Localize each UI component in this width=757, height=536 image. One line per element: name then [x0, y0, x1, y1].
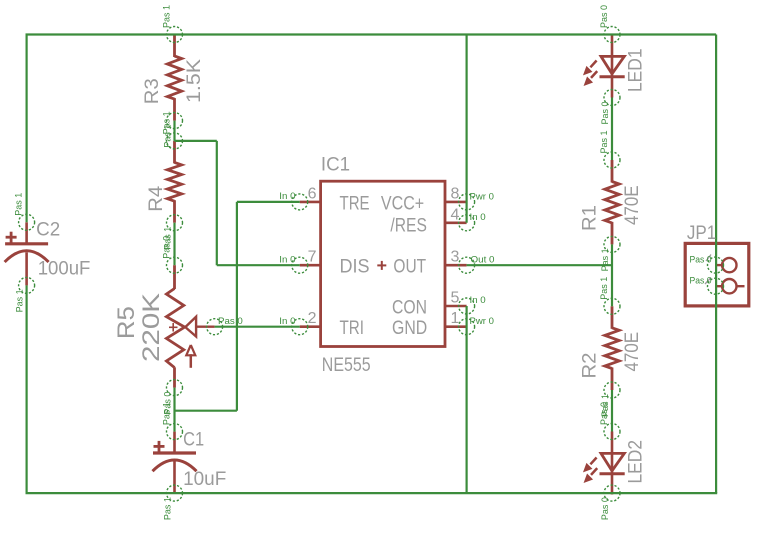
svg-text:Out 0: Out 0: [471, 255, 495, 266]
svg-text:Pas 1: Pas 1: [599, 277, 610, 300]
svg-text:Pas 1: Pas 1: [15, 289, 26, 312]
svg-text:Pas 0: Pas 0: [599, 5, 610, 28]
svg-text:In 0: In 0: [470, 212, 486, 223]
svg-text:R3: R3: [142, 78, 163, 104]
svg-text:TRE: TRE: [340, 194, 370, 215]
svg-text:R4: R4: [146, 185, 167, 211]
svg-text:Pas 1: Pas 1: [163, 497, 174, 520]
svg-text:JP1: JP1: [687, 223, 716, 244]
svg-text:7: 7: [308, 249, 317, 266]
svg-text:NE555: NE555: [322, 355, 371, 376]
svg-text:470E: 470E: [622, 332, 643, 372]
svg-text:Pas 0: Pas 0: [690, 255, 712, 266]
svg-text:Pas 1: Pas 1: [14, 193, 25, 216]
svg-text:Pas 0: Pas 0: [600, 497, 611, 520]
svg-text:6: 6: [308, 185, 317, 202]
svg-text:LED1: LED1: [626, 49, 647, 93]
svg-text:C2: C2: [36, 220, 60, 241]
svg-text:In 0: In 0: [279, 191, 295, 202]
svg-text:100uF: 100uF: [38, 259, 91, 280]
svg-text:10uF: 10uF: [183, 469, 226, 490]
svg-text:R5: R5: [113, 306, 140, 339]
svg-text:OUT: OUT: [393, 257, 426, 278]
svg-text:Pas 0: Pas 0: [162, 236, 173, 259]
svg-text:R1: R1: [580, 205, 601, 231]
svg-text:Pas 1: Pas 1: [162, 5, 173, 28]
svg-text:Pas 0: Pas 0: [690, 276, 712, 287]
svg-text:IC1: IC1: [321, 155, 350, 176]
svg-text:5: 5: [451, 290, 460, 307]
svg-text:220K: 220K: [138, 293, 165, 362]
svg-text:2: 2: [308, 310, 317, 327]
svg-text:Pas 1: Pas 1: [600, 248, 611, 271]
svg-text:Pwr 0: Pwr 0: [470, 316, 494, 327]
svg-text:Pas 0: Pas 0: [599, 402, 610, 425]
svg-text:LED2: LED2: [626, 440, 647, 484]
svg-text:1: 1: [451, 310, 460, 327]
svg-text:8: 8: [451, 185, 460, 202]
svg-text:R2: R2: [580, 353, 601, 379]
svg-text:DIS: DIS: [340, 257, 370, 278]
svg-text:GND: GND: [392, 318, 427, 339]
svg-text:Pas 1: Pas 1: [599, 131, 610, 154]
svg-text:C1: C1: [183, 430, 204, 451]
svg-text:TRI: TRI: [340, 318, 365, 339]
svg-text:In 0: In 0: [470, 295, 486, 306]
svg-text:Pas 1: Pas 1: [162, 111, 173, 134]
svg-text:/RES: /RES: [390, 216, 427, 237]
svg-text:1.5K: 1.5K: [184, 59, 205, 103]
svg-text:4: 4: [451, 206, 460, 223]
svg-text:Pas 1: Pas 1: [162, 402, 173, 425]
svg-text:In 0: In 0: [279, 255, 295, 266]
svg-text:Pwr 0: Pwr 0: [470, 192, 494, 203]
svg-text:VCC+: VCC+: [381, 194, 424, 215]
svg-text:Pas 0: Pas 0: [600, 102, 611, 125]
svg-text:Pas 0: Pas 0: [218, 316, 243, 327]
svg-text:470E: 470E: [622, 185, 643, 225]
svg-text:In 0: In 0: [279, 316, 295, 327]
svg-text:3: 3: [451, 249, 460, 266]
svg-text:CON: CON: [392, 298, 427, 319]
